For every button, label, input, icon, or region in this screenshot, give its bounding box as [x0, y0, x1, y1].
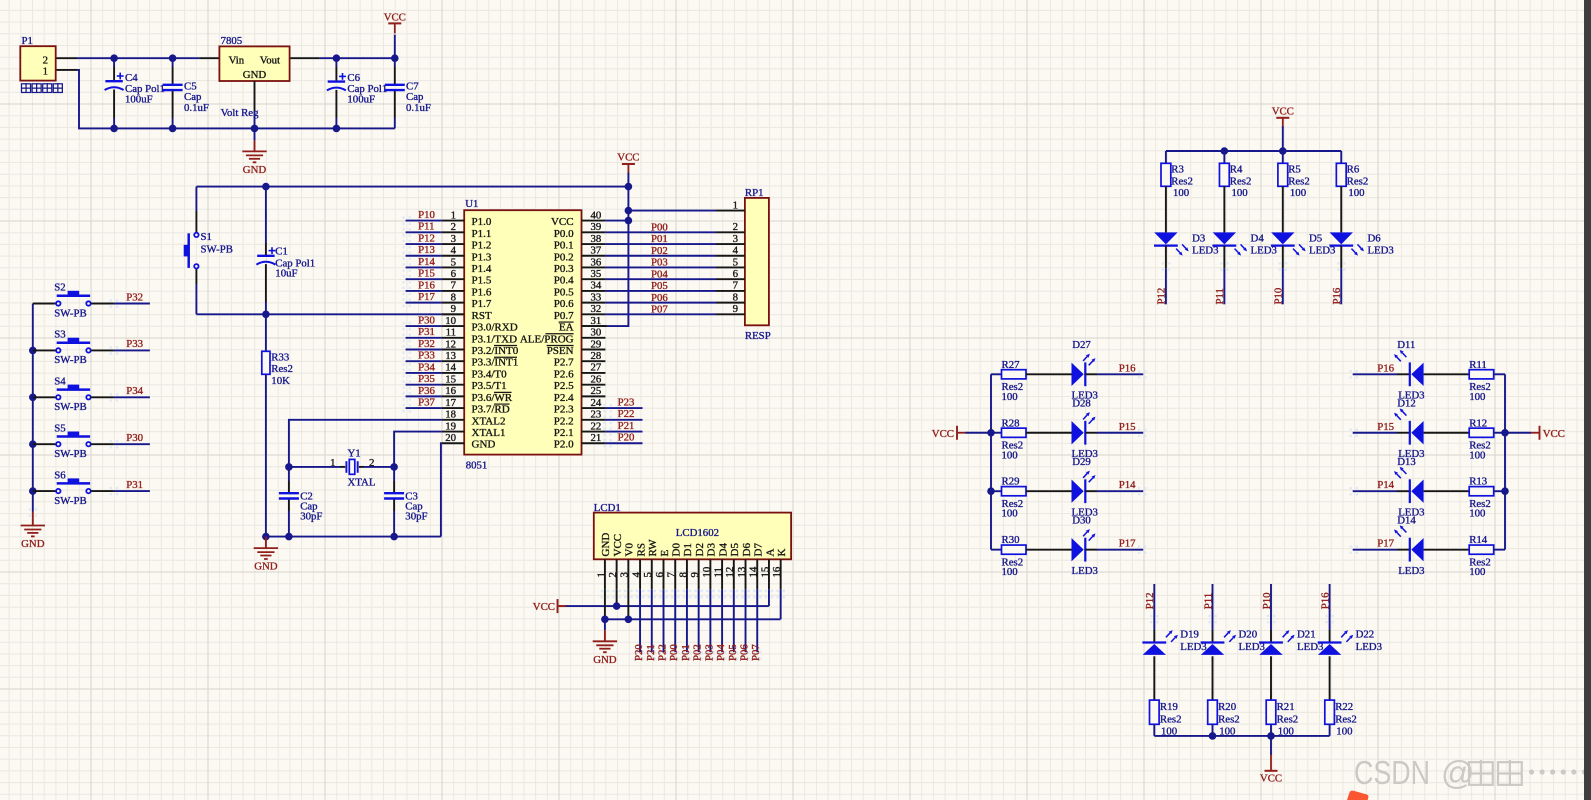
wire left LED column bus: [990, 374, 992, 549]
svg-text:C1: C1: [275, 245, 288, 257]
svg-text:100: 100: [1469, 391, 1485, 403]
net label P11 (rotated, bottom bank): [1212, 584, 1214, 630]
svg-text:100uF: 100uF: [125, 94, 153, 106]
svg-text:P3.3/INT1: P3.3/INT1: [472, 357, 519, 369]
svg-text:P12: P12: [1144, 592, 1156, 609]
LED D3: [1165, 186, 1167, 232]
svg-text:R13: R13: [1469, 476, 1487, 488]
svg-text:P1.3: P1.3: [472, 251, 492, 263]
svg-text:100: 100: [1469, 449, 1485, 461]
wire bottom LED bank VCC bus: [1154, 735, 1329, 737]
power port VCC (top of power section): [394, 35, 396, 59]
wire and net label P30: [91, 443, 114, 445]
svg-text:P11: P11: [1202, 593, 1214, 609]
svg-text:7805: 7805: [221, 35, 243, 47]
capacitor C4: [113, 58, 115, 66]
svg-text:P03: P03: [651, 257, 668, 269]
resistor R12: [1469, 428, 1494, 437]
LCD data net label wires P20-P22 P00-P07 (rotated): [639, 589, 641, 652]
svg-text:RS: RS: [635, 543, 647, 556]
svg-text:D22: D22: [1356, 629, 1375, 641]
resistor R20: [1208, 700, 1218, 724]
svg-text:R28: R28: [1002, 417, 1020, 429]
svg-text:1: 1: [595, 572, 607, 577]
wire GND bottom bus of power section: [56, 69, 77, 71]
svg-text:20: 20: [445, 432, 456, 444]
LED D4: [1223, 186, 1225, 232]
svg-text:P36: P36: [418, 385, 435, 397]
svg-text:P0.0: P0.0: [554, 228, 574, 240]
resistor R28: [991, 432, 1002, 434]
svg-text:P20: P20: [618, 432, 635, 444]
wire XTAL2 to crystal: [289, 420, 442, 467]
svg-text:P16: P16: [1377, 362, 1394, 374]
svg-text:D5: D5: [729, 543, 741, 557]
wire and net label P32: [91, 303, 114, 305]
svg-text:LED3: LED3: [1398, 565, 1424, 577]
svg-text:P3.2/INT0: P3.2/INT0: [472, 345, 519, 357]
ground GND (power section): [254, 128, 256, 140]
svg-text:Res2: Res2: [1277, 713, 1299, 725]
svg-text:18: 18: [445, 409, 456, 421]
switch S1 SW-PB (reset): [195, 187, 197, 211]
svg-text:R30: R30: [1002, 534, 1020, 546]
svg-text:19: 19: [445, 420, 456, 432]
resistor R21: [1266, 700, 1276, 724]
svg-text:R33: R33: [271, 351, 289, 363]
resistor R29: [991, 490, 1002, 492]
regulator 7805: [219, 46, 289, 81]
svg-text:P12: P12: [1156, 288, 1168, 305]
svg-text:R11: R11: [1469, 359, 1487, 371]
power port VCC (left LED column): [956, 426, 958, 440]
resistor R5: [1282, 151, 1284, 163]
svg-text:P0.4: P0.4: [554, 275, 574, 287]
LED D27: [1026, 373, 1072, 375]
resistor pack RP1 RESP: [745, 198, 769, 325]
svg-text:R5: R5: [1288, 164, 1301, 176]
switch S5 SW-PB: [33, 443, 56, 445]
svg-text:D6: D6: [741, 543, 753, 557]
LED D22: [1329, 630, 1331, 643]
svg-text:P2.5: P2.5: [554, 380, 574, 392]
svg-text:100: 100: [1469, 566, 1485, 578]
ghost pin marks: [601, 590, 603, 592]
svg-text:16: 16: [445, 385, 456, 397]
svg-text:R19: R19: [1160, 701, 1178, 713]
svg-text:VCC: VCC: [551, 216, 574, 228]
svg-text:SW-PB: SW-PB: [54, 448, 86, 460]
svg-text:100: 100: [1002, 566, 1018, 578]
svg-text:29: 29: [591, 338, 602, 350]
svg-text:6: 6: [654, 572, 666, 578]
svg-text:P17: P17: [1119, 538, 1136, 550]
svg-text:13: 13: [736, 567, 748, 578]
svg-text:0.1uF: 0.1uF: [406, 102, 431, 114]
svg-text:P14: P14: [1377, 479, 1394, 491]
LED D12: [1397, 432, 1410, 434]
svg-text:P31: P31: [418, 326, 435, 338]
svg-text:P10: P10: [1273, 288, 1285, 305]
svg-text:9: 9: [451, 303, 456, 315]
capacitor C6: [335, 58, 337, 66]
svg-text:1: 1: [451, 209, 456, 221]
svg-text:P2.7: P2.7: [554, 357, 574, 369]
resistor R3: [1165, 151, 1167, 163]
capacitor C3: [393, 467, 395, 481]
svg-text:P33: P33: [126, 338, 143, 350]
svg-text:11: 11: [712, 567, 724, 577]
svg-text:P1.5: P1.5: [472, 275, 492, 287]
svg-text:SW-PB: SW-PB: [54, 495, 86, 507]
ground GND (buttons): [32, 512, 34, 526]
svg-text:GND: GND: [243, 69, 267, 81]
svg-text:P05: P05: [651, 280, 668, 292]
net label P15 (right): [1353, 432, 1397, 434]
svg-text:V0: V0: [624, 543, 636, 557]
svg-text:P21: P21: [645, 644, 657, 661]
svg-text:100: 100: [1173, 187, 1189, 199]
svg-text:0.1uF: 0.1uF: [184, 102, 209, 114]
svg-text:D12: D12: [1397, 397, 1416, 409]
svg-text:P34: P34: [418, 361, 435, 373]
svg-text:D13: D13: [1397, 456, 1416, 468]
ground GND (LCD): [604, 619, 606, 630]
svg-text:P0.6: P0.6: [554, 298, 574, 310]
svg-text:LCD1602: LCD1602: [676, 527, 719, 539]
svg-text:2: 2: [369, 457, 374, 469]
LED D30: [1026, 549, 1072, 551]
svg-text:12: 12: [445, 338, 456, 350]
svg-text:K: K: [776, 549, 788, 557]
LCD pin stubs with numbers: [604, 559, 606, 589]
svg-text:P3.1/TXD: P3.1/TXD: [472, 333, 518, 345]
svg-text:P11: P11: [418, 221, 434, 233]
svg-text:E: E: [659, 550, 671, 557]
svg-text:1: 1: [43, 66, 48, 78]
resistor R14: [1469, 545, 1494, 554]
svg-text:P31: P31: [126, 479, 143, 491]
svg-text:P15: P15: [1377, 421, 1394, 433]
svg-text:P1.4: P1.4: [472, 263, 492, 275]
svg-text:4: 4: [733, 245, 739, 257]
svg-text:4: 4: [630, 572, 642, 578]
LCD1 display module body: [594, 513, 791, 560]
svg-text:A: A: [764, 549, 776, 557]
svg-text:1: 1: [330, 457, 335, 469]
svg-text:R3: R3: [1171, 164, 1184, 176]
power port VCC (LCD): [557, 599, 559, 613]
svg-text:P16: P16: [418, 279, 435, 291]
svg-text:7: 7: [666, 572, 678, 578]
svg-text:P16: P16: [1331, 287, 1343, 304]
svg-text:P17: P17: [1377, 538, 1394, 550]
LED D20: [1212, 630, 1214, 643]
svg-text:GND: GND: [254, 561, 278, 573]
svg-text:P37: P37: [418, 396, 435, 408]
svg-text:P1: P1: [22, 35, 33, 47]
IC U1 8051 microcontroller body: [464, 210, 581, 454]
svg-text:D30: D30: [1072, 514, 1091, 526]
svg-text:P02: P02: [692, 644, 704, 661]
svg-text:P06: P06: [651, 292, 668, 304]
wire 7805 GND pin to bottom bus: [254, 81, 256, 111]
capacitor C7: [394, 58, 396, 66]
svg-text:100: 100: [1336, 725, 1352, 737]
svg-text:D4: D4: [717, 543, 729, 557]
net label P12 (rotated, bottom bank): [1153, 584, 1155, 630]
svg-text:36: 36: [591, 256, 602, 268]
svg-text:15: 15: [445, 373, 456, 385]
svg-text:R6: R6: [1347, 164, 1360, 176]
RP1 pins with numbers: [716, 210, 745, 212]
svg-text:100: 100: [1348, 187, 1364, 199]
svg-text:P07: P07: [651, 304, 668, 316]
wire and net label P34: [91, 396, 114, 398]
svg-text:R21: R21: [1277, 701, 1295, 713]
svg-text:D2: D2: [694, 543, 706, 556]
svg-text:Res2: Res2: [271, 363, 293, 375]
svg-text:Res2: Res2: [1171, 175, 1193, 187]
svg-text:P14: P14: [1119, 479, 1136, 491]
resistor R6: [1340, 151, 1342, 163]
LED D28: [1026, 432, 1072, 434]
svg-text:4: 4: [451, 245, 457, 257]
svg-text:D3: D3: [1192, 232, 1205, 244]
U1 right pins 40-21 with pin numbers: [582, 220, 606, 222]
wire reset top bus from S1/C1 to VCC rail: [196, 186, 628, 188]
svg-text:D14: D14: [1397, 514, 1416, 526]
U1 right pin name overlines: [559, 321, 574, 323]
svg-text:40: 40: [591, 209, 602, 221]
svg-text:SW-PB: SW-PB: [54, 401, 86, 413]
svg-text:6: 6: [451, 268, 457, 280]
svg-text:P32: P32: [126, 291, 143, 303]
svg-text:P3.6/WR: P3.6/WR: [472, 392, 513, 404]
svg-text:21: 21: [591, 432, 602, 444]
svg-text:5: 5: [733, 256, 738, 268]
svg-text:P22: P22: [618, 408, 635, 420]
LED D14: [1397, 549, 1410, 551]
svg-text:D11: D11: [1397, 339, 1415, 351]
capacitor C5: [172, 58, 174, 66]
svg-text:P3.4/T0: P3.4/T0: [472, 368, 508, 380]
svg-text:25: 25: [591, 385, 602, 397]
U1 left pins 1-20 with pin numbers: [442, 220, 464, 222]
svg-text:XTAL2: XTAL2: [472, 415, 506, 427]
wire crystal ground bus: [266, 536, 441, 538]
svg-text:16: 16: [771, 566, 783, 577]
svg-text:P04: P04: [651, 268, 668, 280]
svg-text:VCC: VCC: [533, 601, 555, 613]
svg-text:P07: P07: [750, 644, 762, 661]
resistor R19: [1150, 700, 1160, 724]
wire crystal row: [289, 466, 340, 468]
svg-text:P12: P12: [418, 232, 435, 244]
net label P14 (right): [1353, 490, 1397, 492]
svg-text:39: 39: [591, 221, 602, 233]
svg-text:D19: D19: [1180, 629, 1199, 641]
svg-text:Res2: Res2: [1218, 713, 1240, 725]
svg-text:VCC: VCC: [932, 428, 954, 440]
svg-text:D4: D4: [1251, 232, 1265, 244]
capacitor C2: [288, 467, 290, 481]
svg-text:P0.2: P0.2: [554, 251, 574, 263]
resistor R4: [1223, 151, 1225, 163]
net label P16 (right): [1353, 373, 1397, 375]
wire and net label P31: [91, 490, 114, 492]
svg-text:10: 10: [701, 567, 713, 578]
svg-text:3: 3: [733, 233, 738, 245]
svg-text:Volt Reg: Volt Reg: [221, 107, 259, 119]
svg-text:100: 100: [1002, 391, 1018, 403]
svg-text:17: 17: [445, 397, 456, 409]
svg-text:RST: RST: [472, 310, 492, 322]
crystal Y1 XTAL: [345, 461, 347, 473]
svg-text:14: 14: [445, 362, 456, 374]
svg-text:P3.5/T1: P3.5/T1: [472, 380, 507, 392]
LED D13: [1397, 490, 1410, 492]
resistor R30: [991, 549, 1002, 551]
wire XTAL1 to crystal: [394, 432, 442, 467]
svg-text:8051: 8051: [466, 459, 488, 471]
svg-text:15: 15: [759, 567, 771, 578]
svg-text:GND: GND: [593, 654, 617, 666]
svg-text:Res2: Res2: [1230, 175, 1252, 187]
svg-text:P1.2: P1.2: [472, 240, 492, 252]
svg-text:8: 8: [677, 572, 689, 577]
svg-text:8: 8: [733, 291, 738, 303]
svg-text:Res2: Res2: [1288, 175, 1310, 187]
power port VCC (right LED column): [1539, 426, 1541, 440]
svg-text:P2.0: P2.0: [554, 439, 574, 451]
svg-text:VCC: VCC: [384, 11, 406, 23]
wire VCC to RP1 pin 1: [628, 210, 716, 212]
svg-text:P16: P16: [1319, 592, 1331, 609]
power port VCC (above U1): [622, 163, 635, 165]
wire VIN top bus from P1 to 7805 and C6 C7: [56, 57, 77, 59]
svg-text:2: 2: [607, 572, 619, 577]
svg-text:SW-PB: SW-PB: [54, 307, 86, 319]
svg-text:6: 6: [733, 268, 739, 280]
svg-text:P14: P14: [418, 256, 435, 268]
svg-text:2: 2: [451, 221, 456, 233]
svg-text:P10: P10: [1261, 592, 1273, 609]
svg-text:LED3: LED3: [1072, 565, 1098, 577]
svg-text:R22: R22: [1335, 701, 1353, 713]
svg-text:23: 23: [591, 409, 602, 421]
svg-text:XTAL1: XTAL1: [472, 427, 506, 439]
svg-text:S4: S4: [54, 376, 66, 388]
svg-text:Vin: Vin: [229, 54, 245, 66]
svg-text:24: 24: [591, 397, 602, 409]
svg-text:D7: D7: [753, 543, 765, 557]
svg-text:3: 3: [451, 233, 456, 245]
svg-text:P30: P30: [418, 314, 435, 326]
wire U1 GND pin 20 down: [441, 443, 442, 536]
svg-text:S1: S1: [201, 231, 212, 243]
resistor R11: [1469, 370, 1494, 379]
svg-text:P16: P16: [1119, 362, 1136, 374]
svg-text:ALE/PROG: ALE/PROG: [520, 333, 574, 345]
svg-text:D27: D27: [1072, 339, 1091, 351]
svg-text:100uF: 100uF: [347, 94, 375, 106]
svg-text:13: 13: [445, 350, 456, 362]
svg-text:35: 35: [591, 268, 602, 280]
svg-text:P00: P00: [651, 222, 668, 234]
wire right LED column bus: [1504, 374, 1506, 549]
svg-text:P1.7: P1.7: [472, 298, 492, 310]
capacitor C1: [265, 187, 267, 243]
svg-text:R20: R20: [1218, 701, 1236, 713]
svg-text:10uF: 10uF: [275, 268, 297, 280]
svg-text:P22: P22: [656, 644, 668, 661]
U1 left net label wires P30-P37: [406, 325, 442, 327]
svg-text:10K: 10K: [271, 375, 290, 387]
svg-text:P0.1: P0.1: [554, 240, 574, 252]
svg-text:8: 8: [451, 291, 456, 303]
wire button common bus to GND: [32, 304, 34, 512]
switch S6 SW-PB: [33, 490, 56, 492]
svg-text:R27: R27: [1002, 359, 1021, 371]
svg-text:P06: P06: [739, 644, 751, 661]
svg-text:Res2: Res2: [1335, 713, 1357, 725]
LED D19: [1153, 630, 1155, 643]
ground GND (crystal): [265, 537, 267, 549]
net label P17 (right): [1353, 549, 1397, 551]
wire RST bus from S1/C1/R33 to U1 pin 9: [196, 313, 442, 315]
svg-text:P33: P33: [418, 350, 435, 362]
svg-text:P04: P04: [715, 644, 727, 661]
svg-text:30: 30: [591, 327, 602, 339]
svg-text:RP1: RP1: [745, 187, 764, 199]
svg-text:P32: P32: [418, 338, 435, 350]
svg-text:P15: P15: [1119, 421, 1136, 433]
U1 left pin name overlines: [494, 344, 517, 346]
svg-text:VCC: VCC: [1272, 105, 1294, 117]
U1 right net label wires P23-P20: [605, 407, 642, 409]
switch S4 SW-PB: [33, 396, 56, 398]
svg-text:33: 33: [591, 291, 602, 303]
svg-text:38: 38: [591, 233, 602, 245]
svg-text:9: 9: [689, 572, 701, 577]
svg-text:1: 1: [733, 199, 738, 211]
svg-text:P35: P35: [418, 373, 435, 385]
svg-text:D5: D5: [1309, 232, 1322, 244]
svg-text:5: 5: [642, 572, 654, 577]
svg-text:GND: GND: [600, 533, 612, 557]
svg-text:VCC: VCC: [617, 152, 639, 164]
svg-text:PSEN: PSEN: [547, 345, 574, 357]
svg-text:P15: P15: [418, 268, 435, 280]
svg-text:12: 12: [724, 567, 736, 578]
svg-text:30pF: 30pF: [300, 510, 322, 522]
svg-text:GND: GND: [472, 439, 496, 451]
svg-text:P1.6: P1.6: [472, 286, 492, 298]
svg-text:S5: S5: [54, 422, 65, 434]
svg-text:28: 28: [591, 350, 602, 362]
net label P16 (rotated, bottom bank): [1329, 584, 1331, 630]
switch S3 SW-PB: [33, 349, 56, 351]
svg-text:100: 100: [1002, 449, 1018, 461]
svg-text:P10: P10: [418, 209, 435, 221]
svg-text:P01: P01: [651, 233, 668, 245]
svg-text:P0.5: P0.5: [554, 286, 574, 298]
svg-text:31: 31: [591, 315, 602, 327]
LED D29: [1026, 490, 1072, 492]
wires with net labels P00-P07 from U1 P0.x to RP1: [605, 231, 716, 233]
svg-text:GND: GND: [243, 164, 267, 176]
